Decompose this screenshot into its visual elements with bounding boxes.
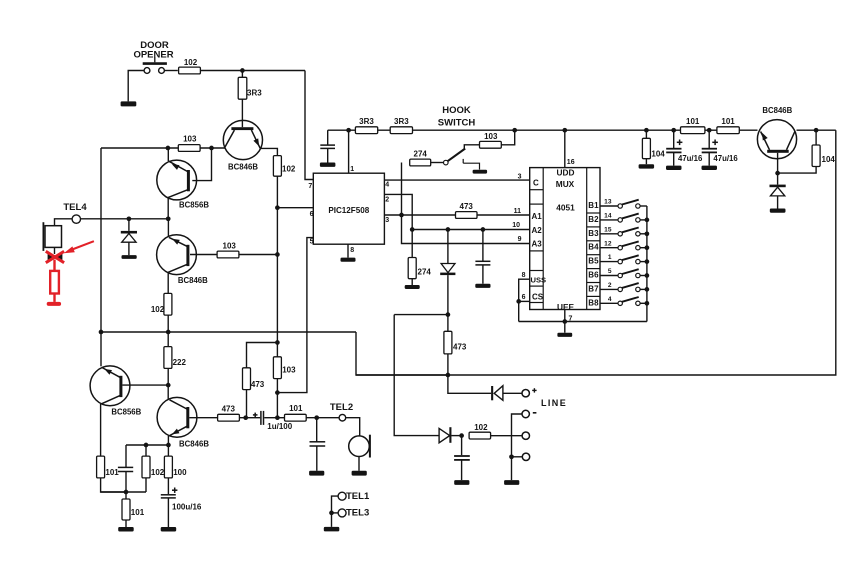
wire Q3 collector down [167, 272, 169, 293]
resistor R7 102 (vertical) [164, 293, 172, 315]
node 385 [166, 383, 171, 388]
node junction top [240, 68, 245, 73]
node rail c6 [707, 128, 712, 133]
wire 101b stub [125, 492, 127, 499]
resistor R15 100 (vertical) [164, 456, 172, 478]
wire 4051 pin7 [564, 310, 566, 322]
resistor R3 103 (top) [178, 145, 200, 152]
svg-text:222: 222 [173, 358, 187, 367]
node 392 [275, 390, 280, 395]
wire TEL1 [332, 496, 339, 527]
svg-text:2: 2 [608, 282, 612, 289]
node 314 [446, 312, 451, 317]
svg-text:7: 7 [569, 316, 573, 323]
svg-text:B8: B8 [588, 298, 599, 307]
wire TEL3 [332, 512, 339, 514]
svg-text:BC846B: BC846B [178, 276, 208, 285]
svg-text:CS: CS [532, 293, 544, 302]
capacitor C5 (a2) [482, 230, 484, 262]
svg-text:104: 104 [651, 149, 665, 158]
wire 102b stub [145, 445, 147, 456]
capacitor C1 1u/100 plus [253, 414, 258, 416]
wire R9 to y492 [101, 478, 126, 492]
svg-text:274: 274 [418, 267, 432, 276]
wire node385 to Q5 [167, 385, 169, 400]
svg-text:4051: 4051 [556, 203, 575, 213]
resistor R5 (red, faulty) [50, 271, 59, 294]
wire Q2 collector down [167, 198, 169, 219]
terminal TEL2 [339, 414, 346, 421]
wire R4 down to node254 [276, 176, 278, 254]
wire 473b to mainline [447, 354, 449, 375]
transistor Q3 BC846B [157, 235, 197, 275]
wire rail y130 d [797, 129, 836, 131]
node pin7 gnd [562, 319, 567, 324]
resistor R10 473 [218, 414, 240, 421]
wire cap3 bottom [125, 472, 127, 493]
terminal LINE low [522, 453, 529, 460]
svg-text:102: 102 [474, 423, 488, 432]
capacitor C8 47u/16 plus [677, 141, 683, 143]
resistor R1 102 (door opener) [179, 67, 201, 74]
wire 104a gnd [645, 159, 647, 165]
wire Q5 emitter down [167, 436, 169, 445]
wire 314 left [394, 314, 448, 316]
svg-text:11: 11 [514, 208, 522, 215]
svg-text:274: 274 [414, 150, 428, 159]
svg-text:5: 5 [608, 268, 612, 275]
transistor Q5 BC846B [157, 397, 197, 437]
svg-text:103: 103 [183, 135, 197, 144]
ic U2 right column separators [587, 212, 600, 214]
svg-text:473: 473 [460, 202, 474, 211]
svg-text:PIC12F508: PIC12F508 [328, 206, 369, 215]
ground C5 [475, 284, 490, 288]
node pin6-102col [275, 205, 280, 210]
svg-text:102: 102 [151, 305, 165, 314]
svg-text:101: 101 [721, 117, 735, 126]
wire PIC pin8 gnd [347, 244, 349, 257]
wire button to R1 [164, 70, 177, 72]
transistor Q6 BC846B [757, 120, 796, 159]
ground C2 [309, 471, 324, 476]
switch SB5 [600, 261, 618, 263]
wire rail-corner down [356, 332, 448, 375]
resistor R16 101 (vertical) [122, 499, 130, 520]
ground TEL [324, 527, 340, 532]
red X mark [46, 251, 64, 262]
ground R22 [405, 285, 420, 289]
svg-text:TEL3: TEL3 [346, 508, 369, 519]
resistor R19 103 [480, 141, 502, 148]
wire 473v stub [246, 390, 248, 418]
diode D1 [121, 231, 137, 234]
resistor R14 102 (vertical) [142, 456, 150, 478]
wire R17 to 4051 A1 [477, 214, 530, 216]
wire R28 to mid [491, 435, 522, 437]
wire Q4 collector down [100, 404, 102, 456]
node rail q6 [814, 128, 819, 133]
transistor Q1 BC846B [223, 120, 262, 159]
resistor R20 3R3 [355, 127, 377, 134]
svg-text:102: 102 [184, 58, 198, 67]
terminal LINE plus [522, 390, 529, 397]
wire R10 to node417 [239, 417, 245, 419]
resistor R9 101 (vertical) [97, 456, 105, 478]
resistor R12 103 (vertical) [273, 357, 281, 379]
svg-text:104: 104 [822, 155, 836, 164]
svg-text:B3: B3 [588, 229, 599, 238]
node Q6 base [775, 171, 780, 176]
node uss-cs [516, 299, 521, 304]
svg-text:BC856B: BC856B [179, 201, 209, 210]
resistor R6 103 [217, 251, 239, 258]
wire pin5 loop [277, 238, 313, 393]
svg-text:BC856B: BC856B [111, 408, 141, 417]
svg-text:7: 7 [308, 183, 312, 190]
ground D1 [122, 255, 137, 259]
capacitor C2 (tel2) [316, 418, 318, 442]
switch SB7 [600, 288, 618, 290]
svg-text:LINE: LINE [541, 398, 567, 408]
wire minus to bus [512, 414, 523, 480]
node bus B5 [645, 259, 650, 264]
wire R6 to 102-column [239, 254, 278, 256]
wire rail y332 [101, 331, 356, 333]
resistor R28 102 [469, 432, 491, 439]
node TEL4-D1 [127, 216, 132, 221]
wire cs down [518, 301, 520, 321]
resistor R22 274 (vertical) [408, 258, 416, 279]
svg-text:16: 16 [567, 159, 575, 166]
svg-text:8: 8 [522, 272, 526, 279]
svg-text:10: 10 [512, 222, 520, 229]
svg-text:3: 3 [518, 173, 522, 180]
wire C1 to R13 [277, 417, 284, 419]
resistor R24 101 [681, 127, 705, 134]
label minus [533, 412, 537, 414]
wire 4051 pin16 [564, 130, 566, 167]
wire Q3 emitter up [167, 219, 169, 237]
svg-text:UDD: UDD [557, 168, 575, 178]
diode D4 (left) [491, 386, 493, 400]
svg-text:B7: B7 [588, 284, 599, 293]
resistor R26 104 (vertical) [812, 145, 820, 167]
wire 104a stub [645, 130, 647, 138]
resistor R25 101 [717, 127, 739, 134]
wire loop down [394, 315, 439, 436]
wire D1 bottom [128, 242, 130, 255]
wire 222 stub [167, 332, 169, 347]
svg-text:USS: USS [531, 276, 547, 285]
node rail332 Q3col [166, 330, 171, 335]
wire Q4 base [122, 384, 168, 386]
node mic-cap [314, 415, 319, 420]
capacitor C3 [118, 466, 133, 468]
wire Q5 base to R10 [189, 417, 217, 419]
resistor R17 473 [456, 212, 478, 219]
wire R13 to TEL2 [306, 417, 339, 419]
wire 473b stub top [447, 315, 449, 332]
node rail 104 [644, 128, 649, 133]
node bus B6 [645, 273, 650, 278]
switch SB8 [600, 302, 618, 304]
wire cap4 to ground [167, 498, 169, 527]
wire cap3 top [125, 445, 127, 467]
wire R7 to rail332 [167, 315, 169, 332]
node 417 cap-in [243, 415, 248, 420]
ground mic [352, 471, 367, 476]
wire 473v up corner [247, 343, 278, 368]
svg-text:B1: B1 [588, 201, 599, 210]
wire 222 to node385 [167, 368, 169, 385]
wire CS [519, 300, 530, 302]
ground C4 [161, 527, 177, 532]
ic U1 PIC12F508 [313, 173, 384, 244]
resistor R8 222 (vertical) [164, 347, 172, 369]
svg-text:SWITCH: SWITCH [438, 118, 476, 129]
transistor Q4 BC856B [90, 366, 130, 406]
svg-text:BC846B: BC846B [228, 163, 258, 172]
wire left column lower [100, 332, 102, 366]
node rail 4051 [562, 128, 567, 133]
svg-text:100: 100 [173, 468, 187, 477]
terminal LINE minus [522, 410, 529, 417]
terminal TEL3 [338, 509, 346, 517]
door opener push button S1 [144, 68, 150, 74]
node pin3-col [399, 213, 404, 218]
wire node to R2 [241, 71, 243, 78]
wire TEL2 to mic [346, 418, 360, 436]
diode D2 (down) [441, 264, 455, 273]
resistor R2 3R3 (vertical) [238, 77, 247, 99]
svg-text:1: 1 [608, 254, 612, 261]
wire to PIC pin7 [305, 71, 313, 180]
wire rail y148 left [101, 147, 225, 149]
node 102col-254 [275, 252, 280, 257]
diode D3 [770, 185, 786, 188]
wire R19 to rail [501, 130, 514, 145]
ground 4051 [557, 333, 572, 337]
node rail332 left [99, 330, 104, 335]
node rail pin1 [346, 128, 351, 133]
svg-text:BC846B: BC846B [762, 106, 792, 115]
node 417 cap-out [275, 415, 280, 420]
svg-text:103: 103 [484, 132, 498, 141]
ground door-opener [121, 101, 137, 106]
wire contact to R19 [464, 145, 479, 149]
svg-text:1u/100: 1u/100 [267, 422, 292, 431]
node 492 [124, 490, 129, 495]
wire left column [100, 148, 102, 332]
svg-text:C: C [533, 179, 539, 188]
svg-text:3: 3 [385, 217, 389, 224]
svg-text:TEL4: TEL4 [63, 202, 87, 213]
svg-text:A3: A3 [532, 240, 543, 249]
transistor Q2 BC856B [157, 160, 197, 200]
svg-text:14: 14 [604, 213, 612, 220]
terminal TEL1 [338, 492, 346, 500]
capacitor C9 47u/16 plus [712, 141, 718, 143]
diode D5 (right) [439, 428, 450, 442]
wire to D4 [448, 375, 491, 393]
node R3 right [209, 146, 214, 151]
resistor R18 274 [410, 159, 431, 166]
node bus B3 [645, 231, 650, 236]
node bus B7 [645, 287, 650, 292]
svg-text:MUX: MUX [556, 179, 575, 189]
capacitor C7 (pic) [327, 130, 329, 145]
svg-text:2: 2 [385, 197, 389, 204]
resistor R23 104 (vertical) [642, 138, 650, 158]
switch SB1 [600, 205, 618, 207]
node 445 mid [144, 443, 149, 448]
wire PIC pin2 [384, 194, 412, 229]
wire 101b to ground [125, 520, 127, 527]
ground C10 [454, 480, 469, 485]
wire Q6base to 104b [778, 167, 817, 174]
wire 274v gnd [411, 279, 413, 285]
red ground [47, 302, 61, 306]
svg-text:3R3: 3R3 [394, 117, 409, 126]
wire rail y130 [328, 129, 681, 131]
svg-text:100u/16: 100u/16 [172, 502, 202, 511]
ground R23 [639, 164, 655, 168]
wire D1 top [128, 219, 130, 231]
node A2-D2 [446, 227, 451, 232]
capacitor C4 100u/16 [161, 494, 176, 496]
wire TEL4 net [81, 218, 169, 220]
node line bus low [509, 454, 514, 459]
svg-text:HOOK: HOOK [442, 105, 471, 116]
wire PIC pin1 [348, 130, 350, 173]
svg-text:473: 473 [251, 380, 265, 389]
node 445 right [166, 443, 171, 448]
hook switch S2 [444, 160, 449, 165]
wire Q6 base down [777, 153, 779, 173]
node 342 on 102col [275, 340, 280, 345]
wire 100 stub [167, 445, 169, 456]
node TEL4-Q2Q3 [166, 216, 171, 221]
wire bus top corner [646, 206, 648, 322]
svg-text:101: 101 [289, 404, 303, 413]
wire D3 bottom [777, 196, 779, 209]
svg-text:13: 13 [604, 199, 612, 206]
wire mic to ground [358, 457, 360, 471]
wire R18 to contact [431, 162, 444, 164]
terminal TEL4 [72, 215, 80, 223]
svg-text:TEL1: TEL1 [346, 491, 370, 502]
svg-text:UEE: UEE [557, 302, 575, 312]
resistor R27 473 (vertical) [444, 331, 452, 354]
svg-text:103: 103 [223, 242, 237, 251]
node rail c5 [671, 128, 676, 133]
svg-text:101: 101 [131, 508, 145, 517]
wire 102b to y492 [145, 478, 147, 492]
svg-text:47u/16: 47u/16 [678, 154, 703, 163]
svg-text:12: 12 [604, 240, 612, 247]
ground R16 [118, 527, 134, 532]
svg-text:3R3: 3R3 [359, 117, 374, 126]
wire PIC pin3 to R17 [384, 214, 455, 216]
svg-text:BC846B: BC846B [179, 439, 209, 448]
switch SB6 [600, 275, 618, 277]
wire R1 to node [200, 70, 305, 72]
ground D3 [770, 209, 786, 213]
ground C8 [666, 166, 682, 170]
node TEL3 [329, 511, 334, 516]
svg-text:8: 8 [350, 247, 354, 254]
wire door-opener switch to ground [128, 71, 144, 102]
svg-text:47u/16: 47u/16 [713, 154, 738, 163]
wire y492 [101, 491, 146, 493]
svg-text:B6: B6 [588, 271, 599, 280]
svg-text:15: 15 [604, 226, 612, 233]
wire 103v to node392 [276, 379, 278, 393]
capacitor C4 100u/16 plus [172, 489, 177, 491]
node rail-Q2emitter [166, 146, 171, 151]
svg-text:6: 6 [310, 211, 314, 218]
capacitor C1 1u/100 [246, 417, 261, 419]
resistor R13 101 [285, 414, 307, 421]
switch SB4 [600, 247, 618, 249]
svg-text:A2: A2 [532, 226, 543, 235]
svg-text:4: 4 [385, 182, 389, 189]
wire 103v stub [276, 343, 278, 357]
wire D2 bottom [447, 275, 449, 315]
wire 104b up [815, 130, 817, 145]
switch SB3 [600, 233, 618, 235]
capacitor C9 47u/16 [708, 130, 710, 148]
wire PIC pin4 to 4051 C [384, 179, 529, 181]
node A2-C5 [481, 227, 486, 232]
speaker LS1 [45, 226, 62, 248]
resistor R4 102 (vertical) [273, 156, 281, 177]
wire node392 to node417 [276, 393, 278, 418]
svg-text:9: 9 [518, 236, 522, 243]
wire 274v stub [411, 230, 413, 258]
svg-text:6: 6 [522, 294, 526, 301]
svg-text:101: 101 [105, 468, 119, 477]
ic U2 4051 body [530, 168, 600, 310]
svg-text:B4: B4 [588, 243, 599, 252]
red wire R5 to ground [53, 294, 55, 302]
svg-text:473: 473 [222, 404, 236, 413]
ground C7 [320, 163, 336, 167]
wire right edge loop [356, 130, 836, 375]
svg-text:B5: B5 [588, 257, 599, 266]
wire low stub [512, 456, 523, 458]
capacitor C10 [461, 436, 463, 456]
svg-text:5: 5 [310, 238, 314, 245]
switch SB2 [600, 219, 618, 221]
ground hook switch [473, 170, 488, 174]
microphone MIC1 [349, 436, 370, 457]
wire bottom bus [519, 321, 647, 323]
wire R2 to Q1 base [241, 99, 243, 127]
node bus B2 [645, 218, 650, 223]
svg-text:473: 473 [453, 343, 467, 352]
ground line bus [504, 480, 519, 485]
node D5-C10 [459, 433, 464, 438]
wire Q2 base riser [192, 148, 211, 181]
node A2-274 [410, 227, 415, 232]
svg-text:A1: A1 [532, 212, 543, 221]
svg-text:103: 103 [282, 366, 296, 375]
wire Q3 base to R6 [190, 254, 217, 256]
wire D2 top [447, 230, 449, 264]
svg-text:3R3: 3R3 [247, 89, 262, 98]
